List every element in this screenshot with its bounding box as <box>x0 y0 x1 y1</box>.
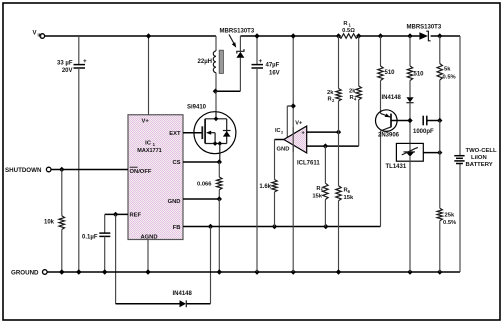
svg-text:6: 6 <box>348 189 351 194</box>
svg-text:1: 1 <box>349 22 352 27</box>
svg-text:0.5%: 0.5% <box>443 220 456 226</box>
svg-text:15k: 15k <box>312 193 322 199</box>
svg-text:V: V <box>33 31 37 37</box>
svg-text:1.6k: 1.6k <box>259 184 271 190</box>
svg-text:15k: 15k <box>344 195 354 201</box>
svg-text:510: 510 <box>414 72 425 78</box>
svg-text:Si9410: Si9410 <box>187 105 207 111</box>
svg-text:V+: V+ <box>295 120 303 126</box>
svg-text:SHUTDOWN: SHUTDOWN <box>5 167 42 174</box>
svg-text:GND: GND <box>277 146 290 152</box>
svg-text:0.066: 0.066 <box>197 182 212 188</box>
svg-text:2: 2 <box>281 129 284 134</box>
svg-text:IC: IC <box>145 141 152 147</box>
svg-text:IN4148: IN4148 <box>173 291 193 297</box>
svg-text:1000pF: 1000pF <box>413 129 434 135</box>
svg-text:ICL7611: ICL7611 <box>297 161 320 167</box>
svg-text:MBRS130T3: MBRS130T3 <box>407 25 442 31</box>
svg-text:IN: IN <box>38 33 42 38</box>
svg-text:+: + <box>259 58 263 65</box>
svg-text:ON/OFF: ON/OFF <box>130 169 152 175</box>
svg-text:IC: IC <box>275 128 281 134</box>
svg-text:0.1µF: 0.1µF <box>82 234 98 240</box>
svg-text:BATTERY: BATTERY <box>466 162 493 168</box>
svg-text:25k: 25k <box>445 212 455 218</box>
svg-text:MAX1771: MAX1771 <box>137 148 161 154</box>
svg-text:+: + <box>83 58 87 65</box>
svg-text:0.5Ω: 0.5Ω <box>342 28 355 34</box>
svg-text:16V: 16V <box>269 70 280 76</box>
svg-text:10k: 10k <box>44 220 55 226</box>
svg-text:33 µF: 33 µF <box>57 60 73 66</box>
svg-text:0.5%: 0.5% <box>443 74 456 80</box>
svg-text:MBRS130T3: MBRS130T3 <box>220 29 255 35</box>
svg-text:LiION: LiION <box>471 155 487 161</box>
svg-text:REF: REF <box>130 213 142 219</box>
svg-text:TL1431: TL1431 <box>386 164 407 170</box>
svg-text:510: 510 <box>385 70 396 76</box>
svg-text:TWO-CELL: TWO-CELL <box>466 148 497 154</box>
svg-text:CS: CS <box>172 160 180 166</box>
svg-text:2k: 2k <box>349 88 356 94</box>
svg-text:GROUND: GROUND <box>11 270 39 277</box>
svg-text:2N3906: 2N3906 <box>378 133 400 139</box>
svg-text:2k: 2k <box>327 90 334 96</box>
svg-text:AGND: AGND <box>140 234 157 240</box>
svg-text:47µF: 47µF <box>266 62 280 68</box>
svg-text:22µH: 22µH <box>198 59 212 65</box>
svg-text:EXT: EXT <box>169 131 181 137</box>
svg-text:FB: FB <box>173 225 181 231</box>
svg-text:+: + <box>302 131 305 137</box>
svg-text:2: 2 <box>332 98 335 103</box>
svg-text:5k: 5k <box>444 67 451 73</box>
svg-text:V+: V+ <box>142 118 150 124</box>
svg-text:GND: GND <box>168 199 181 205</box>
svg-text:IN4148: IN4148 <box>382 95 402 101</box>
svg-text:20V: 20V <box>62 68 73 74</box>
